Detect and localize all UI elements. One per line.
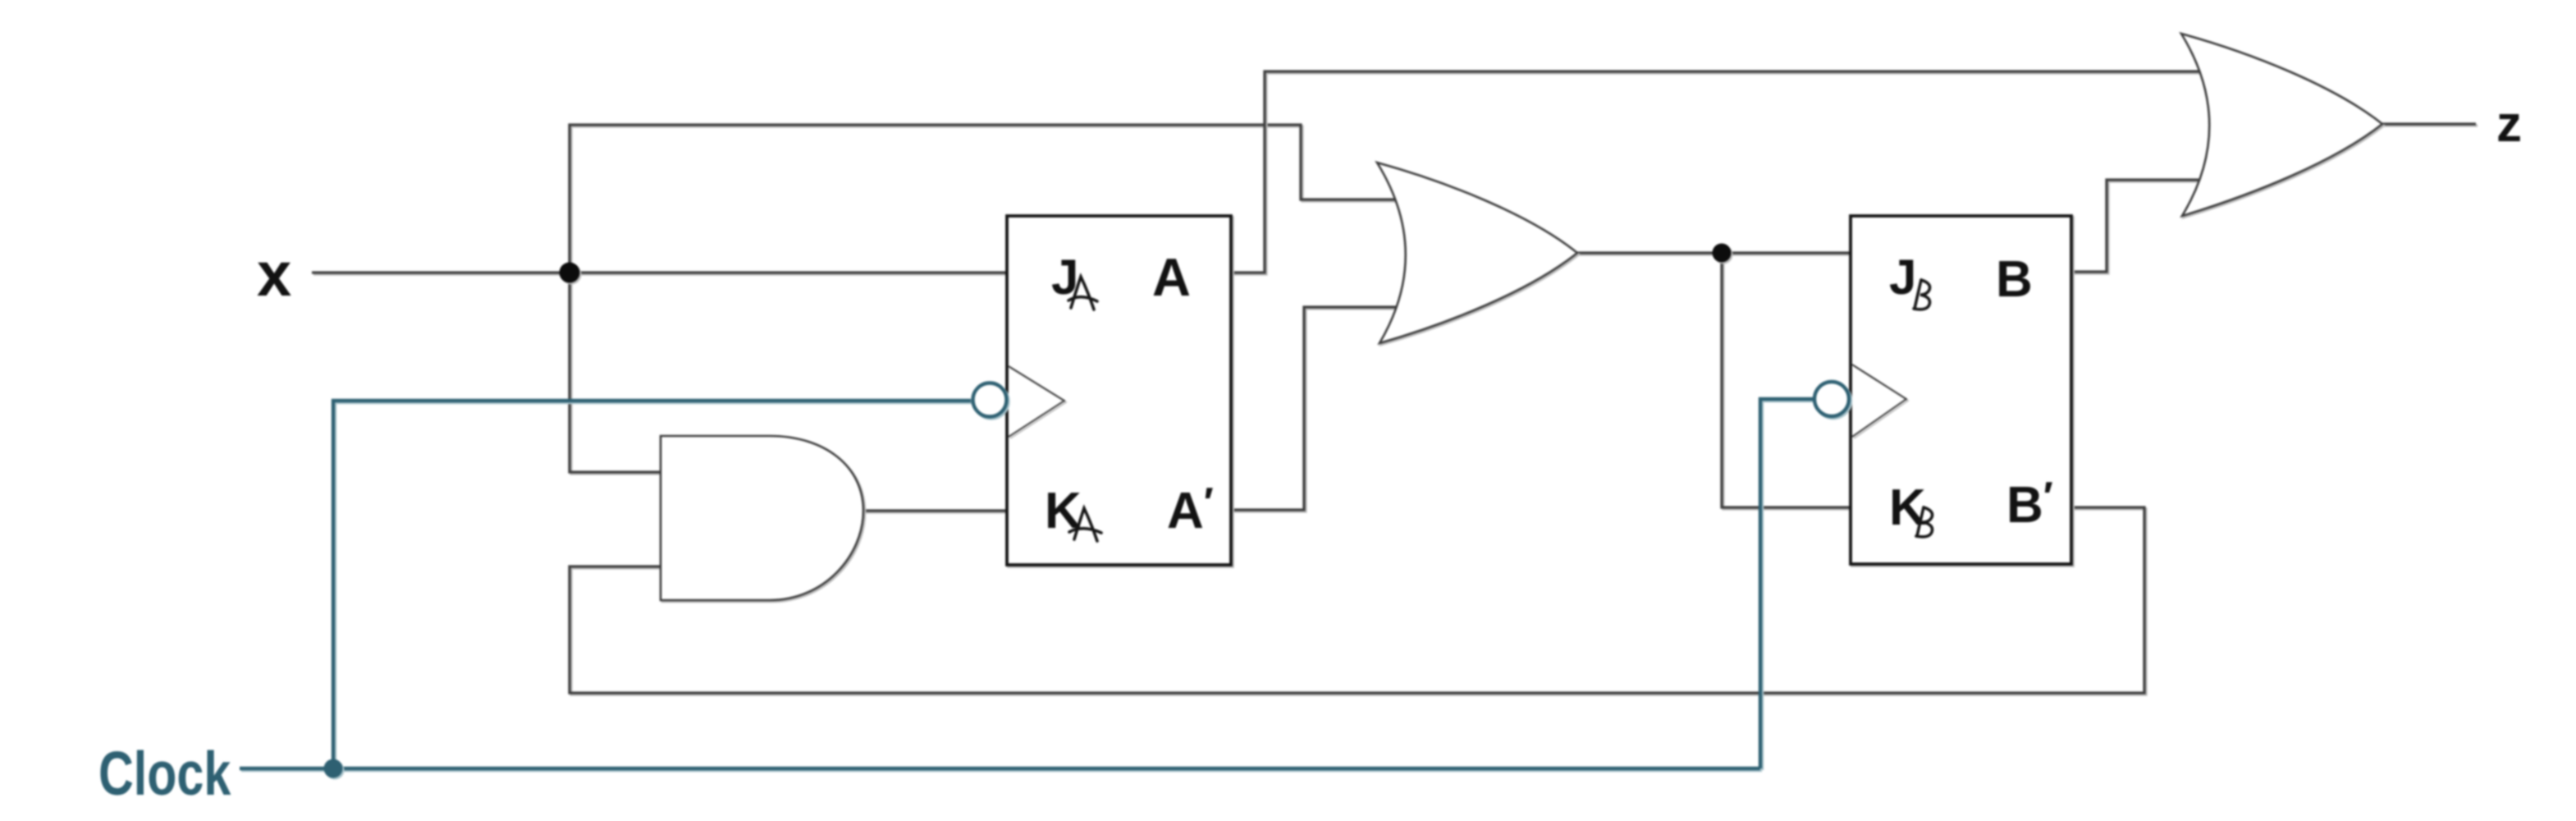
wire x branch up to OR1 upper input <box>570 125 1400 273</box>
flip-flop U2 JK box B <box>1851 216 2071 564</box>
flip-flop U1 JK box A <box>1007 216 1231 565</box>
wire A' output to OR1 lower input <box>1230 307 1400 510</box>
svg-text:B: B <box>1996 251 2033 308</box>
pin label JA subscript A handwritten <box>1068 277 1097 310</box>
flip-flop U1 clock triangle <box>1009 366 1064 437</box>
svg-text:K: K <box>1889 479 1926 536</box>
node x junction <box>560 263 580 283</box>
wire B output to OR2 lower input <box>2071 180 2204 272</box>
wire A output to OR2 upper input <box>1230 71 2204 273</box>
node Clock junction <box>324 759 343 778</box>
wire B' feedback to AND lower input <box>570 507 2144 693</box>
wire Clock branch to FFB clock <box>1760 399 1813 768</box>
pin label KA subscript A handwritten <box>1069 508 1101 541</box>
flip-flop U2 clock triangle <box>1852 365 1906 437</box>
or-gate G2 <box>1377 163 1577 343</box>
or-gate G3 output z <box>2181 34 2382 216</box>
wire z output <box>2382 122 2476 125</box>
wire Clock branch to FFA clock <box>333 401 971 768</box>
wire x input <box>312 271 1007 273</box>
svg-text:x: x <box>257 240 291 310</box>
svg-text:Clock: Clock <box>98 740 231 808</box>
wire OR1 output to JB <box>1577 251 1851 254</box>
node OR1 output junction <box>1713 244 1732 263</box>
wire node to KB input <box>1722 253 1851 507</box>
wire AND output to KA <box>863 509 1007 511</box>
pin label KB subscript B handwritten <box>1916 507 1933 537</box>
svg-text:z: z <box>2496 96 2522 153</box>
svg-text:A: A <box>1152 247 1191 307</box>
wire x branch down to AND upper input <box>570 273 661 472</box>
flip-flop U1 clock bubble <box>973 383 1007 417</box>
pin label JB subscript B handwritten <box>1914 280 1930 310</box>
flip-flop U2 clock bubble <box>1814 382 1849 416</box>
svg-text:J: J <box>1889 250 1916 305</box>
and-gate G1 <box>661 436 863 600</box>
wire Clock main line <box>240 767 1760 770</box>
